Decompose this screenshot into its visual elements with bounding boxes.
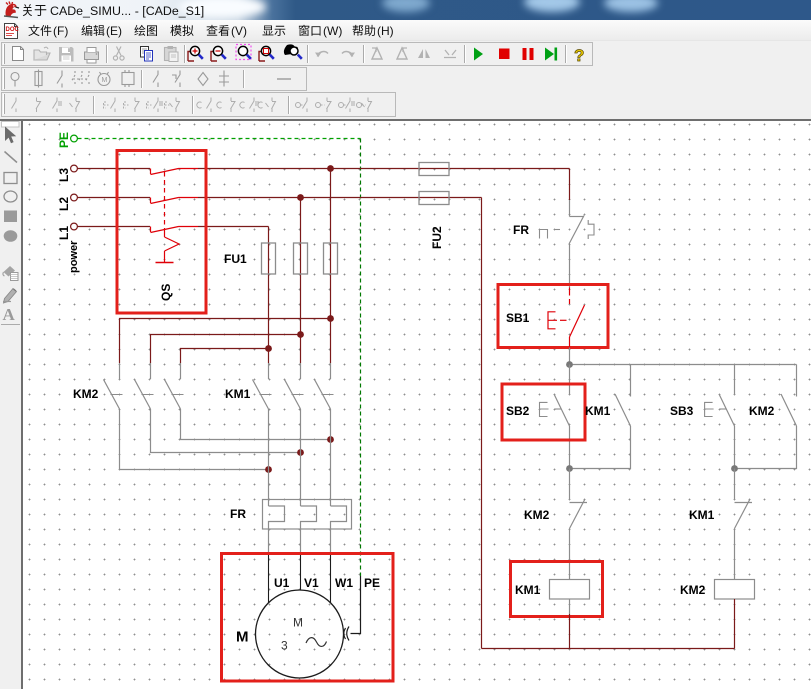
svg-text:KM1: KM1 — [585, 404, 611, 418]
svg-text:A: A — [3, 305, 16, 324]
svg-text:SB1: SB1 — [506, 311, 530, 325]
svg-text:(F): (F) — [53, 24, 68, 38]
svg-text:KM2: KM2 — [680, 583, 706, 597]
svg-text:KM1: KM1 — [689, 508, 715, 522]
svg-text:KM2: KM2 — [749, 404, 775, 418]
svg-text:M: M — [236, 629, 249, 646]
svg-text:(V): (V) — [231, 24, 247, 38]
svg-text:QS: QS — [159, 284, 173, 301]
svg-text:L2: L2 — [57, 197, 71, 211]
svg-text:PE: PE — [364, 576, 380, 590]
svg-text:(W): (W) — [323, 24, 342, 38]
svg-text:(H): (H) — [377, 24, 394, 38]
svg-text:CADe_SIMU... - [CADe_S1]: CADe_SIMU... - [CADe_S1] — [50, 4, 204, 18]
svg-text:KM2: KM2 — [73, 387, 99, 401]
svg-text:FU1: FU1 — [224, 252, 247, 266]
svg-text:W1: W1 — [335, 576, 353, 590]
svg-text:L3: L3 — [57, 168, 71, 182]
svg-text:V1: V1 — [304, 576, 319, 590]
svg-text:DOC: DOC — [6, 27, 20, 33]
svg-text:U1: U1 — [274, 576, 290, 590]
svg-text:?: ? — [574, 46, 584, 65]
svg-text:PE: PE — [57, 132, 71, 148]
svg-text:3: 3 — [281, 639, 288, 653]
svg-text:M: M — [102, 77, 108, 84]
svg-text:SB2: SB2 — [506, 404, 530, 418]
svg-text:FU2: FU2 — [430, 226, 444, 249]
svg-text:FR: FR — [230, 507, 246, 521]
svg-text:SB3: SB3 — [670, 404, 694, 418]
svg-text:KM1: KM1 — [225, 387, 251, 401]
svg-text:M: M — [293, 616, 303, 630]
svg-text:FR: FR — [513, 223, 529, 237]
svg-text:L1: L1 — [57, 226, 71, 240]
svg-text:(E): (E) — [106, 24, 122, 38]
svg-text:KM1: KM1 — [515, 583, 541, 597]
svg-text:KM2: KM2 — [524, 508, 550, 522]
svg-text:power: power — [68, 240, 80, 273]
